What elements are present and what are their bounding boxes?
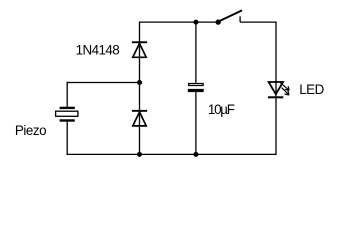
switch S1 pole dot	[216, 19, 221, 24]
svg-text:LED: LED	[299, 82, 324, 97]
node junction bottom (capacitor to bottom rail)	[193, 152, 198, 157]
label LED	[299, 82, 324, 97]
capacitor C1 bottom plate (solid)	[188, 89, 204, 92]
svg-text:10µF: 10µF	[208, 102, 235, 117]
wire bottom rail	[67, 153, 277, 155]
node junction top (capacitor to top rail)	[193, 20, 198, 25]
node junction bottom left (lower diode to bottom rail)	[137, 152, 142, 157]
label Piezo	[15, 123, 46, 138]
wire top rail right (switch contact to right rail)	[240, 21, 277, 23]
switch S1 blade	[219, 10, 242, 21]
LED D3 emission arrow 2	[282, 88, 289, 95]
diode D2 cathode bar	[132, 110, 147, 112]
LED D3 cathode bar	[268, 96, 283, 98]
diode D2 triangle	[133, 112, 146, 126]
svg-text:1N4148: 1N4148	[76, 42, 120, 57]
svg-text:Piezo: Piezo	[15, 123, 46, 138]
wire top rail (diode top to switch pole)	[139, 21, 218, 23]
wire left diode branch vertical	[139, 22, 141, 155]
diode D1 1N4148 cathode bar	[132, 41, 147, 43]
wire right rail vertical (LED branch)	[275, 22, 277, 155]
label 10uF	[208, 102, 235, 117]
switch S1 contact tick	[239, 16, 241, 22]
LED D3 triangle	[269, 82, 283, 94]
piezo top electrode bar	[60, 107, 75, 109]
wire capacitor branch vertical	[195, 22, 197, 154]
wire piezo branch vertical	[66, 82, 68, 154]
wire middle (piezo top to diode junction)	[67, 82, 140, 84]
diode D1 1N4148 triangle	[133, 43, 146, 57]
node junction middle (between diodes)	[137, 80, 142, 85]
capacitor C1 top plate (hollow)	[189, 84, 204, 86]
label 1N4148	[76, 42, 120, 57]
LED D3 emission arrow 1	[280, 83, 289, 91]
piezo crystal body	[56, 111, 78, 116]
piezo bottom electrode bar	[60, 119, 75, 121]
